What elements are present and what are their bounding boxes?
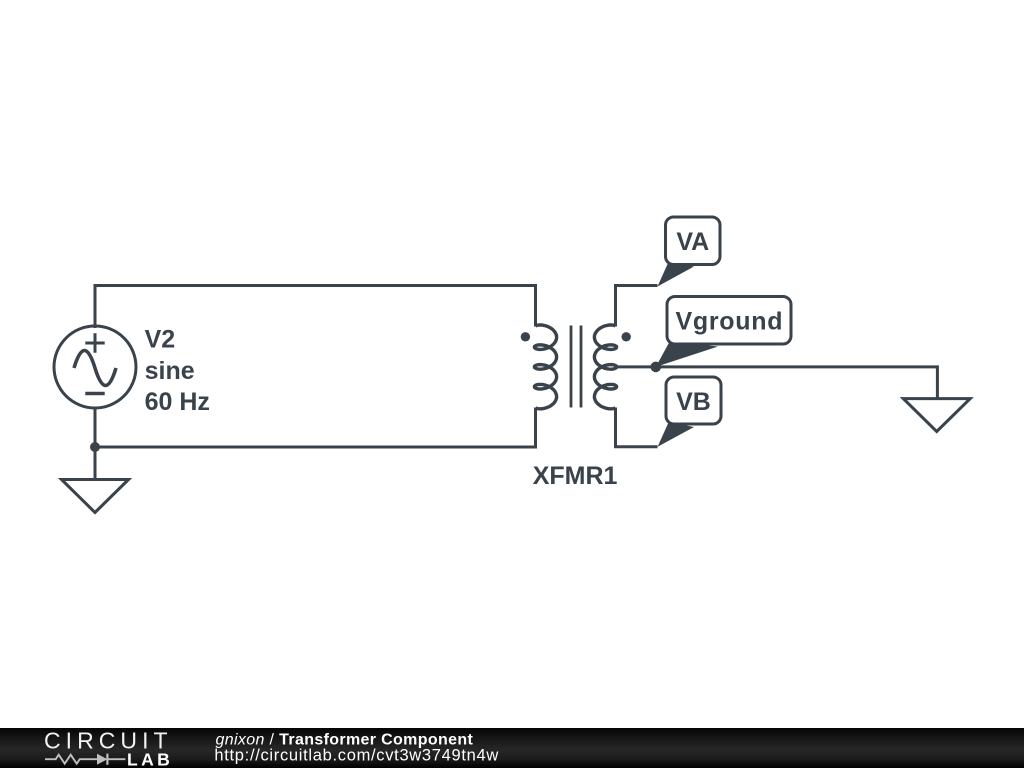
XFMR1 secondary phase dot	[622, 332, 631, 341]
wire: secondary center tap to ground GND2	[616, 367, 937, 399]
CircuitLab logo resistor-diode glyph	[45, 754, 125, 765]
transformer XFMR1 core	[571, 326, 581, 408]
ground GND2	[903, 399, 970, 432]
wire: V2 positive to XFMR1 primary top	[95, 286, 536, 329]
ground GND1	[62, 480, 129, 513]
transformer XFMR1 primary winding	[534, 325, 556, 409]
wire: XFMR1 primary bottom to V2 negative	[95, 408, 536, 448]
junction: V2 negative / bottom rail	[90, 442, 100, 452]
svg-text:LAB: LAB	[127, 750, 173, 768]
wire: secondary bottom to node VB	[616, 408, 658, 447]
wire: secondary top to node VA	[616, 286, 658, 327]
wire: V2 negative to ground GND1	[94, 447, 97, 480]
node flag Vground	[656, 297, 791, 367]
XFMR1 primary phase dot	[521, 332, 530, 341]
junction: center tap / Vground node	[651, 362, 662, 373]
transformer XFMR1 secondary winding	[594, 325, 616, 409]
voltage source V2	[54, 326, 136, 408]
node flag VA	[658, 217, 721, 287]
svg-text:http://circuitlab.com/cvt3w374: http://circuitlab.com/cvt3w3749tn4w	[214, 747, 499, 765]
node flag VB	[658, 377, 721, 447]
footer bar	[0, 728, 1024, 768]
